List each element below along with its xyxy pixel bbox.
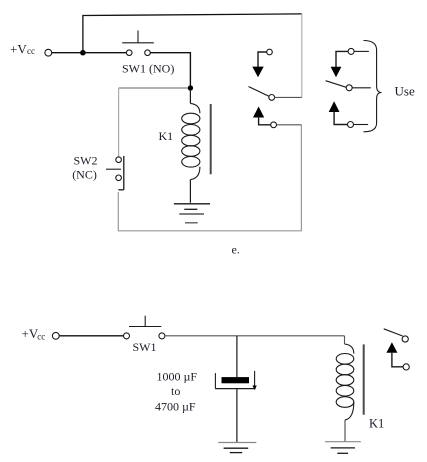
svg-text:cc: cc xyxy=(37,331,45,341)
svg-text:e.: e. xyxy=(232,243,240,257)
svg-text:Use: Use xyxy=(395,84,415,99)
svg-text:1000 µF: 1000 µF xyxy=(157,370,198,384)
svg-text:SW2: SW2 xyxy=(74,154,98,168)
svg-text:+V: +V xyxy=(10,42,27,57)
svg-text:4700 µF: 4700 µF xyxy=(155,400,196,414)
svg-text:K1: K1 xyxy=(159,129,174,143)
svg-text:K1: K1 xyxy=(369,417,384,431)
svg-text:SW1: SW1 xyxy=(133,340,157,354)
svg-text:(NC): (NC) xyxy=(72,168,97,182)
svg-text:SW1 (NO): SW1 (NO) xyxy=(122,62,174,76)
svg-text:cc: cc xyxy=(27,46,35,56)
svg-text:to: to xyxy=(171,384,180,398)
svg-text:+V: +V xyxy=(22,326,39,341)
